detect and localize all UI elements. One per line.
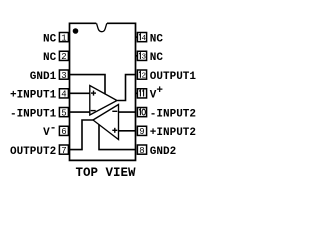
svg-text:3: 3 <box>61 71 66 81</box>
svg-text:4: 4 <box>61 90 66 100</box>
svg-text:1: 1 <box>61 33 66 43</box>
svg-text:V-: V- <box>43 123 56 140</box>
svg-text:NC: NC <box>43 52 57 64</box>
svg-text:-INPUT1: -INPUT1 <box>10 108 57 120</box>
svg-text:+INPUT1: +INPUT1 <box>10 90 57 102</box>
svg-text:NC: NC <box>150 33 164 45</box>
svg-text:OUTPUT2: OUTPUT2 <box>10 146 56 158</box>
svg-text:6: 6 <box>61 127 66 137</box>
svg-text:2: 2 <box>141 72 146 80</box>
svg-text:+INPUT2: +INPUT2 <box>150 127 196 139</box>
svg-text:NC: NC <box>150 52 164 64</box>
svg-text:4: 4 <box>141 35 146 43</box>
svg-text:-INPUT2: -INPUT2 <box>150 108 196 120</box>
svg-text:V+: V+ <box>150 85 164 102</box>
svg-text:3: 3 <box>141 54 146 62</box>
svg-text:2: 2 <box>61 52 66 62</box>
svg-text:GND1: GND1 <box>30 71 57 83</box>
svg-text:7: 7 <box>61 146 66 156</box>
svg-text:TOP VIEW: TOP VIEW <box>76 166 137 180</box>
svg-text:OUTPUT1: OUTPUT1 <box>150 71 197 83</box>
svg-text:9: 9 <box>139 127 144 137</box>
svg-text:NC: NC <box>43 33 57 45</box>
svg-text:GND2: GND2 <box>150 146 176 158</box>
svg-text:8: 8 <box>139 146 144 156</box>
svg-text:5: 5 <box>61 108 66 118</box>
